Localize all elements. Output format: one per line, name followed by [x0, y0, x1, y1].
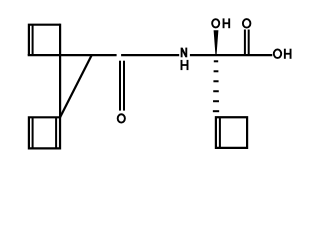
main chain bond N to carboxyl [190, 54, 272, 56]
carboxyl C=O double bond line 2 [248, 30, 250, 56]
wedge bond to OH [214, 30, 219, 54]
H label under N [182, 60, 188, 70]
ring 2 inner double bond left [32, 118, 34, 147]
hashed bond dash 1 [214, 60, 218, 62]
hashed bond dash 5 [213, 100, 219, 102]
diagonal bond CH to ring2 top-right corner [60, 55, 92, 117]
carboxyl C=O double bond line 1 [244, 30, 246, 56]
stereo OH label: H [224, 18, 230, 28]
ring 3 inner double bond [219, 118, 221, 147]
carboxyl O label [243, 19, 251, 28]
amide C=O double bond line 2 [123, 61, 125, 111]
ring 2 inner double bond right [55, 118, 57, 147]
N label [182, 48, 187, 58]
cyclobutene ring 1 (top-left square, open at bottom/right) [29, 25, 60, 55]
amide O label [118, 114, 125, 122]
hashed bond dash 4 [213, 90, 219, 92]
stereo OH label: O [212, 19, 219, 27]
carboxyl OH label: O [274, 49, 281, 58]
main chain bond left segment (includes ring1 bottom edge) [28, 54, 117, 56]
cyclobutene ring 3 (bottom-right square) [216, 117, 247, 148]
ring 1 double bond inner line [32, 25, 34, 55]
carboxyl OH label: H [285, 49, 291, 59]
vertical bond: ring1 right edge down to ring2 corner [59, 24, 61, 118]
hashed bond dash 2 [214, 70, 219, 72]
hashed bond dash 3 [213, 80, 218, 82]
amide C=O double bond line 1 [119, 61, 121, 111]
cyclobutadiene ring 2 (bottom-left square) [29, 117, 60, 148]
hashed bond dash 6 [213, 110, 219, 112]
main chain bond carbonyl to N [121, 54, 179, 56]
